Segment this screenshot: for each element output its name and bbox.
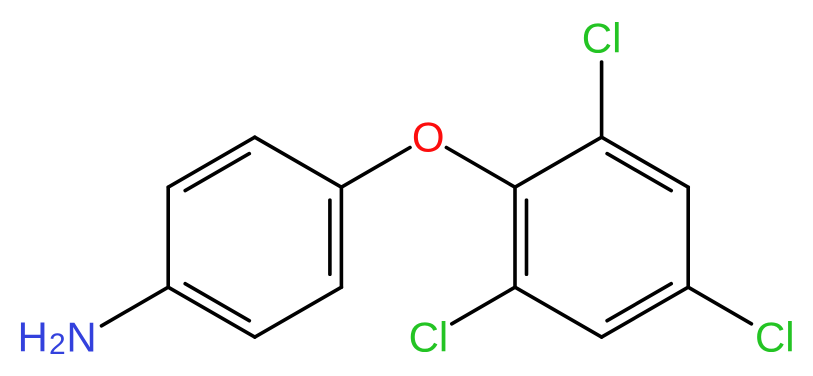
- svg-text:Cl: Cl: [409, 314, 449, 361]
- svg-text:Cl: Cl: [755, 314, 795, 361]
- svg-text:Cl: Cl: [582, 14, 622, 61]
- svg-text:2: 2: [49, 328, 66, 361]
- svg-text:H: H: [18, 314, 48, 361]
- svg-text:O: O: [412, 113, 445, 160]
- svg-text:N: N: [66, 314, 96, 361]
